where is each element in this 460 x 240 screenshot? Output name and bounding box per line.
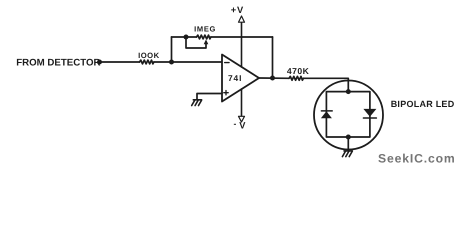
wire: feedback rail left segment bbox=[172, 36, 197, 38]
wire: op-amp non-inverting input to ground bbox=[197, 94, 222, 100]
node: output junction bbox=[270, 76, 275, 81]
wire: LED bottom to ground bbox=[347, 137, 349, 151]
-V arrowhead bbox=[239, 116, 245, 122]
wire: pot wiper loop bbox=[186, 37, 206, 48]
wire: R1 to op-amp inverting input bbox=[154, 61, 222, 63]
node: junction of R1, R2 and inverting input bbox=[169, 60, 174, 65]
+V arrowhead bbox=[239, 16, 245, 22]
svg-text:BIPOLAR LED: BIPOLAR LED bbox=[391, 99, 455, 109]
wire: R3 to LED top node bbox=[303, 78, 348, 91]
resistor R2 1MEG (potentiometer) bbox=[197, 35, 211, 39]
input terminal dot bbox=[97, 60, 102, 65]
svg-text:-: - bbox=[234, 119, 237, 129]
svg-text:V: V bbox=[239, 121, 246, 131]
LED D2 cathode bar bbox=[363, 117, 376, 119]
svg-text:74I: 74I bbox=[228, 73, 242, 83]
wire: LED internal square frame bbox=[326, 92, 370, 137]
svg-text:FROM DETECTOR: FROM DETECTOR bbox=[16, 57, 100, 68]
wire: junction up to feedback rail bbox=[171, 37, 173, 62]
wire: feedback rail right segment bbox=[211, 36, 273, 38]
op-amp non-inverting input plus sign bbox=[224, 91, 228, 95]
svg-text:470K: 470K bbox=[287, 66, 310, 76]
node: LED bottom bbox=[346, 135, 351, 140]
wire: +V supply to op-amp bbox=[241, 22, 243, 67]
bipolar LED package circle bbox=[314, 81, 383, 150]
wire: op-amp to -V supply bbox=[241, 89, 243, 117]
svg-text:IMEG: IMEG bbox=[194, 25, 216, 34]
op-amp inverting input minus sign bbox=[225, 62, 229, 64]
resistor R1 100K bbox=[140, 60, 154, 64]
svg-text:+V: +V bbox=[231, 5, 244, 15]
svg-text:IOOK: IOOK bbox=[138, 51, 160, 60]
ground (op-amp + input) bbox=[192, 100, 202, 106]
svg-text:SeekIC.com: SeekIC.com bbox=[378, 151, 456, 165]
wire: op-amp output to R3 bbox=[259, 77, 289, 79]
wire: feedback rail down to output node bbox=[272, 37, 274, 78]
pot wiper arrowhead bbox=[204, 39, 209, 44]
ground (below LED) bbox=[342, 151, 352, 157]
LED D1 (left, anode down) cathode bar bbox=[321, 110, 332, 112]
LED D1 triangle bbox=[321, 111, 332, 118]
wire: input to R1 bbox=[100, 61, 140, 63]
resistor R3 470K bbox=[289, 76, 303, 80]
LED D2 (right, anode up) triangle bbox=[363, 109, 376, 117]
node: LED top bbox=[346, 89, 351, 94]
op-amp U1 triangle bbox=[222, 55, 259, 102]
node: pot wiper tie point bbox=[184, 35, 189, 40]
